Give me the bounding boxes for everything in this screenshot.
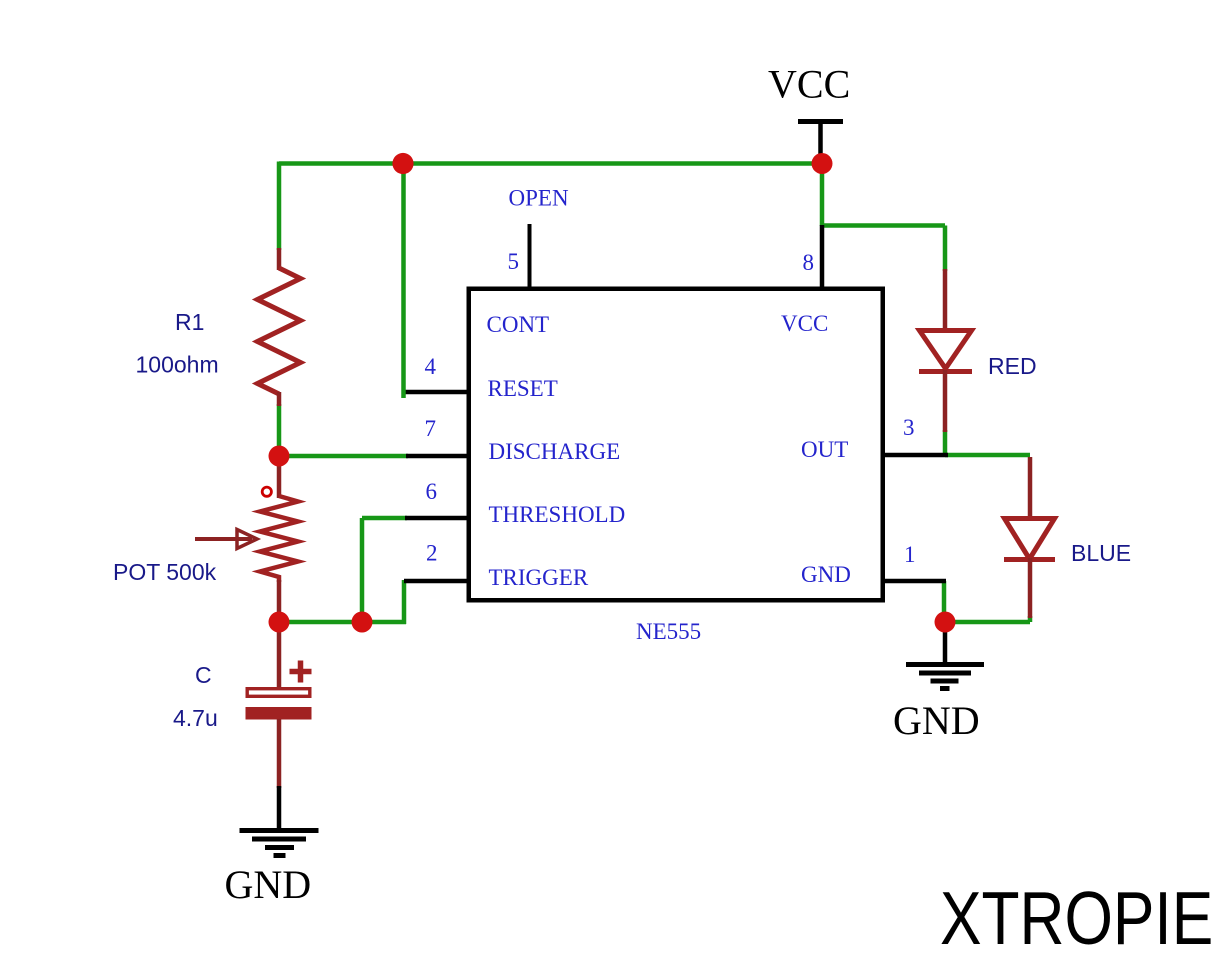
svg-text:DISCHARGE: DISCHARGE	[489, 439, 621, 464]
LED RED	[919, 331, 972, 372]
svg-text:BLUE: BLUE	[1071, 540, 1131, 566]
lead capacitor bottom	[277, 719, 282, 788]
pin 5 wire	[528, 224, 532, 290]
svg-text:7: 7	[425, 416, 437, 441]
svg-text:TRIGGER: TRIGGER	[489, 565, 589, 590]
potentiometer RV zigzag	[260, 496, 298, 582]
junction dot A	[392, 153, 413, 174]
junction dot E (threshold)	[352, 612, 373, 633]
svg-text:3: 3	[903, 415, 915, 440]
wire black to GND right	[943, 620, 948, 666]
capacitor C plus sign	[290, 661, 312, 683]
lead POT bottom	[277, 580, 282, 624]
svg-text:2: 2	[426, 541, 438, 566]
svg-text:R1: R1	[175, 309, 204, 335]
svg-text:GND: GND	[893, 698, 980, 743]
lead R1 top	[277, 248, 282, 270]
wire threshold vertical	[360, 518, 365, 622]
svg-text:RESET: RESET	[488, 376, 558, 401]
wire bottom junction horizontal	[279, 620, 406, 625]
svg-text:5: 5	[508, 249, 520, 274]
wire pin8 to RED branch horizontal	[822, 223, 945, 228]
svg-text:VCC: VCC	[768, 62, 850, 107]
op-amp box U1 NE555	[469, 289, 883, 601]
svg-text:8: 8	[803, 250, 815, 275]
pin 1 wire	[881, 579, 946, 584]
capacitor C top plate	[247, 689, 310, 697]
pin 7 wire	[406, 454, 467, 459]
svg-text:4.7u: 4.7u	[173, 705, 218, 731]
svg-text:1: 1	[904, 542, 916, 567]
wire threshold horizontal	[362, 516, 407, 521]
svg-text:GND: GND	[225, 862, 312, 907]
pot wiper arrow	[195, 537, 252, 541]
wire black to GND left	[277, 786, 282, 832]
junction dot C (discharge)	[269, 446, 290, 467]
wire RED anode vertical green	[943, 226, 948, 272]
wire discharge horizontal green	[279, 454, 408, 459]
pin 8 wire black	[820, 225, 825, 290]
svg-text:CONT: CONT	[487, 312, 550, 337]
svg-text:4: 4	[425, 354, 437, 379]
wire pin3 horizontal green	[945, 453, 1030, 458]
svg-text:POT 500k: POT 500k	[113, 559, 217, 585]
svg-text:GND: GND	[801, 562, 851, 587]
svg-text:XTROPIE: XTROPIE	[940, 877, 1213, 961]
lead POT top	[277, 454, 282, 498]
pot wiper terminal circle	[262, 487, 271, 496]
pin 3 wire	[881, 453, 948, 458]
svg-text:RED: RED	[988, 353, 1037, 379]
ground GND right symbol	[906, 665, 984, 689]
junction dot B (VCC)	[812, 153, 833, 174]
wire BLUE cathode green stub	[1028, 616, 1033, 622]
junction dot D (pot bottom)	[269, 612, 290, 633]
wire net VCC top horizontal	[279, 161, 822, 166]
svg-text:OPEN: OPEN	[509, 186, 569, 211]
resistor R1	[258, 268, 301, 394]
svg-text:OUT: OUT	[801, 437, 848, 462]
lead capacitor top	[277, 620, 282, 689]
svg-text:NE555: NE555	[636, 619, 701, 644]
svg-text:VCC: VCC	[781, 311, 828, 336]
ground GND left symbol	[240, 831, 319, 856]
wire RED cathode vertical green	[943, 430, 948, 457]
pin 4 wire	[402, 390, 467, 395]
wire reset vertical green	[401, 164, 406, 399]
wire R1 bottom to junction	[277, 404, 282, 458]
lead BLUE anode	[1028, 457, 1033, 521]
pin 2 wire	[404, 579, 467, 584]
svg-text:C: C	[195, 662, 212, 688]
wire trigger vertical	[402, 580, 407, 624]
svg-text:6: 6	[426, 479, 438, 504]
power VCC symbol	[798, 119, 843, 124]
wire pin8 vertical green	[820, 164, 825, 227]
pin 6 wire	[405, 516, 467, 521]
svg-text:THRESHOLD: THRESHOLD	[489, 502, 626, 527]
lead BLUE cathode	[1028, 558, 1033, 618]
wire pin1 vertical green	[942, 581, 947, 622]
junction dot F (gnd right)	[935, 612, 956, 633]
lead RED anode	[943, 269, 948, 333]
wire left vertical to R1	[277, 162, 282, 251]
LED BLUE	[1004, 519, 1055, 560]
capacitor C bottom plate	[246, 707, 312, 720]
svg-text:100ohm: 100ohm	[136, 352, 219, 378]
wire gnd-right horizontal green	[944, 620, 1030, 625]
lead R1 bottom	[277, 392, 282, 406]
lead RED cathode	[943, 370, 948, 432]
